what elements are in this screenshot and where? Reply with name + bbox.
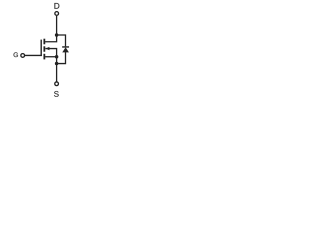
MOSFET Q1 channel segment: drain contact — [43, 39, 45, 45]
diode D1 anode triangle — [62, 47, 69, 52]
wire: source vertical to terminal — [56, 64, 58, 82]
MOSFET Q1 channel segment: source contact — [43, 54, 45, 60]
terminal D label — [54, 3, 59, 9]
node: body-source junction — [55, 55, 59, 59]
wire: diode branch bottom — [57, 52, 66, 63]
wire: diode branch top — [57, 35, 66, 46]
node: source-diode junction — [55, 62, 59, 66]
wire: source stub — [45, 56, 57, 58]
terminal S label — [54, 91, 59, 97]
MOSFET Q1 gate electrode — [40, 40, 42, 56]
wire: drain vertical from terminal to MOSFET drain contact — [45, 16, 57, 42]
wire: body connection to source — [45, 49, 56, 64]
gate terminal circle — [21, 54, 25, 58]
wire: gate — [25, 54, 42, 56]
node: drain junction — [55, 33, 59, 37]
MOSFET Q1 body arrow — [46, 47, 50, 50]
MOSFET Q1 channel segment: body contact — [43, 46, 45, 51]
drain terminal circle — [55, 12, 59, 16]
diode D1 cathode bar — [62, 46, 69, 48]
terminal G label — [14, 52, 18, 57]
source terminal circle — [55, 82, 59, 86]
